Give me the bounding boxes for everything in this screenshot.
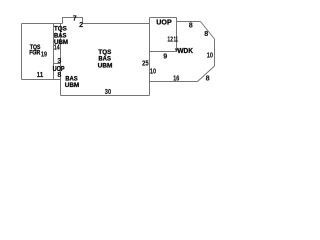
wire deck top line [150, 51, 177, 53]
node UOP box top [150, 17, 177, 19]
svg-text:8: 8 [204, 29, 208, 38]
svg-text:10: 10 [150, 67, 156, 76]
svg-text:14: 14 [54, 43, 60, 52]
wire top-right chamfer [201, 22, 215, 40]
wire main right wall [149, 18, 151, 96]
node WDK arrowhead [175, 48, 179, 52]
svg-text:8: 8 [206, 74, 210, 83]
wire top-left wall [22, 23, 63, 25]
wire left wall of FGR [21, 24, 23, 80]
wire bottom-right chamfer [198, 66, 215, 82]
node bump above top wall (7x2) [63, 18, 83, 24]
svg-text:16: 16 [173, 73, 179, 82]
svg-text:30: 30 [105, 87, 111, 96]
svg-text:FGR: FGR [29, 50, 40, 57]
svg-text:12: 12 [167, 35, 173, 44]
wire shared wall x=53.5 [53, 24, 55, 80]
wire UOP box right wall [176, 18, 178, 50]
svg-text:10: 10 [207, 50, 213, 59]
svg-text:25: 25 [142, 58, 149, 67]
wire top-middle wall [83, 23, 150, 25]
svg-text:11: 11 [174, 35, 178, 44]
svg-text:UBM: UBM [98, 63, 113, 70]
wire bottom wall of FGR / porch [22, 79, 61, 81]
svg-text:8: 8 [189, 21, 193, 30]
svg-text:UOP: UOP [156, 17, 171, 26]
wire interior wall x=60.5 [60, 24, 62, 96]
wire main bottom wall [61, 95, 150, 97]
wire right section bottom [150, 81, 198, 83]
wire right section top [177, 21, 201, 23]
svg-text:7: 7 [73, 14, 77, 23]
svg-text:2: 2 [79, 20, 83, 29]
svg-text:WDK: WDK [177, 46, 193, 55]
wire small wall under 3 [54, 63, 61, 65]
svg-text:19: 19 [41, 49, 47, 58]
svg-text:UBM: UBM [65, 82, 80, 89]
svg-text:9: 9 [163, 51, 167, 60]
svg-text:8: 8 [57, 70, 61, 79]
svg-text:11: 11 [37, 70, 44, 79]
wire right wall [214, 39, 216, 66]
